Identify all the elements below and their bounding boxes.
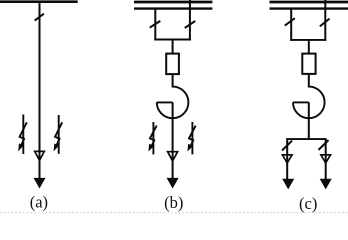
disconnect switch QS1 (c) <box>285 18 295 25</box>
circuit breaker QF (c) <box>302 54 315 74</box>
cable terminal (hollow arrowhead) (b) <box>168 152 178 161</box>
reactor L (b) <box>157 87 189 119</box>
load arrow (b) <box>167 178 178 188</box>
wire: drop to breaker (c) <box>308 40 310 55</box>
tube arrester F1 (a) <box>19 115 27 155</box>
wire: breaker to reactor (b) <box>172 74 174 87</box>
disconnect switch QS1 (b) <box>150 21 161 28</box>
wire: right bus drop (b) <box>189 0 191 40</box>
busbar W1 (c) <box>270 1 348 4</box>
wire: left feeder (c) <box>286 139 288 180</box>
svg-text:(b): (b) <box>164 193 183 212</box>
disconnect switch slash left feeder (c) <box>282 141 292 151</box>
svg-text:(c): (c) <box>299 194 317 213</box>
wire: left bus drop (b) <box>154 9 156 41</box>
circuit breaker QF (b) <box>166 54 179 75</box>
disconnect switch slash (a) <box>35 14 44 21</box>
wire: joining bar (b) <box>154 39 191 41</box>
busbar W (a) <box>0 0 78 3</box>
wire: branch bar (c) <box>286 138 326 140</box>
disconnect switch QS2 (c) <box>320 19 330 27</box>
wire: breaker to reactor (c) <box>308 74 310 88</box>
disconnect switch QS2 (b) <box>185 21 196 28</box>
wire: right feeder (c) <box>325 139 327 180</box>
wire: joining bar (c) <box>290 39 326 41</box>
cable terminal (hollow arrowhead) (a) <box>35 151 45 160</box>
busbar W2 (c) <box>270 7 348 9</box>
wire: drop to breaker (b) <box>172 40 174 55</box>
wire: right bus drop (c) <box>324 0 326 41</box>
tube arrester F2 (a) <box>54 115 62 154</box>
wire: reactor output drop (c) <box>308 102 310 140</box>
busbar W2 (b) <box>134 7 212 9</box>
cable terminal right (hollow arrowhead) (c) <box>321 155 331 163</box>
tube arrester F2 (b) <box>188 122 196 154</box>
svg-text:(a): (a) <box>30 192 48 211</box>
wire: reactor output feeder (b) <box>172 102 174 179</box>
wire: left bus drop (c) <box>290 9 292 41</box>
busbar W1 (b) <box>134 1 212 4</box>
disconnect switch slash right feeder (c) <box>319 140 329 150</box>
cable terminal left (hollow arrowhead) (c) <box>282 155 292 163</box>
load arrow left (c) <box>283 179 294 189</box>
wire: main feeder line (a) <box>39 2 41 180</box>
tube arrester F1 (b) <box>149 122 157 154</box>
load arrow right (c) <box>320 179 331 189</box>
load arrow (a) <box>34 178 45 188</box>
reactor L (c) <box>293 87 325 119</box>
